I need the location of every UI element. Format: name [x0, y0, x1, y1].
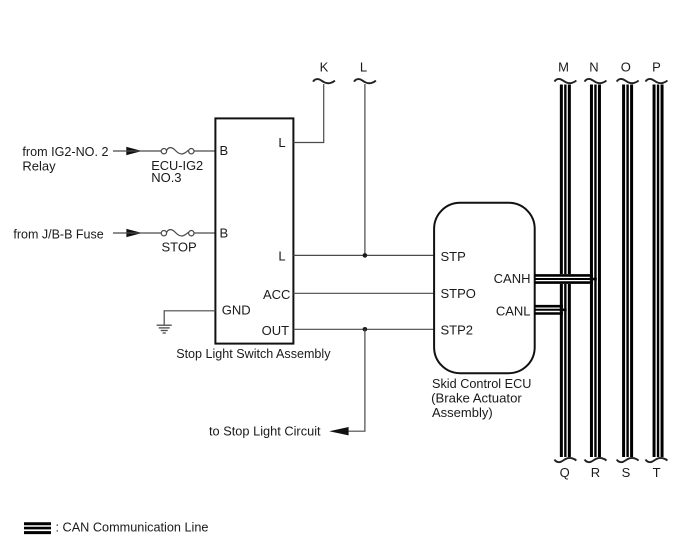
svg-text:M: M: [558, 60, 569, 75]
connector N: [585, 79, 607, 83]
wire connector L down to STP line: [364, 84, 366, 255]
svg-text:from IG2-NO. 2: from IG2-NO. 2: [22, 144, 108, 159]
arrow into B2 (from J/B-B Fuse): [126, 229, 142, 237]
svg-text:Q: Q: [560, 465, 570, 480]
wire fuse F2 to pin B2: [194, 232, 215, 234]
svg-text:STOP: STOP: [162, 239, 197, 254]
svg-text:STPO: STPO: [441, 286, 476, 301]
svg-text:K: K: [320, 60, 329, 75]
connector K: [313, 79, 335, 83]
svg-text:CANH: CANH: [494, 271, 531, 286]
svg-text:from J/B-B Fuse: from J/B-B Fuse: [13, 227, 103, 242]
CANH line crossing white-out over bus M: [559, 274, 573, 284]
fuse STOP: [161, 230, 194, 236]
svg-text:L: L: [360, 60, 367, 75]
Skid Control ECU box: [434, 203, 535, 373]
svg-text:STP2: STP2: [441, 323, 474, 338]
junction dot on STP line: [363, 253, 368, 258]
legend CAN line symbol: [24, 524, 51, 533]
svg-text:(Brake Actuator: (Brake Actuator: [431, 390, 522, 405]
svg-text:Stop Light Switch Assembly: Stop Light Switch Assembly: [176, 346, 331, 361]
wire from relay arrow to fuse F1: [113, 150, 161, 152]
ground symbol: [157, 325, 172, 333]
svg-text:S: S: [622, 465, 631, 480]
svg-text:L: L: [278, 135, 285, 150]
svg-text:N: N: [589, 60, 598, 75]
svg-text:B: B: [220, 226, 229, 241]
connector P: [646, 79, 668, 83]
svg-text:CANL: CANL: [496, 304, 531, 319]
svg-text:L: L: [278, 248, 285, 263]
svg-text:Relay: Relay: [22, 159, 56, 174]
svg-text:T: T: [653, 465, 661, 480]
label: from IG2-NO. 2 Relay: [22, 144, 108, 174]
svg-text:STP: STP: [441, 249, 466, 264]
fuse ECU-IG2 NO.3: [161, 148, 194, 154]
svg-text:B: B: [220, 143, 229, 158]
svg-text:O: O: [621, 60, 631, 75]
CAN bus P vertical line: [654, 85, 662, 458]
connector Q: [555, 458, 577, 462]
svg-text:R: R: [591, 465, 600, 480]
CAN bus N vertical line: [591, 85, 599, 458]
wire ACC to STPO: [293, 292, 434, 294]
connector M: [555, 79, 577, 83]
svg-text:: CAN Communication Line: : CAN Communication Line: [56, 520, 209, 535]
CAN bus M vertical line: [561, 85, 569, 458]
connector S: [617, 458, 639, 462]
wire to stop light circuit: [346, 329, 365, 431]
junction dot on OUT line: [363, 327, 368, 332]
svg-text:NO.3: NO.3: [151, 170, 181, 185]
svg-text:OUT: OUT: [262, 323, 290, 338]
wire GND to ground: [164, 311, 215, 325]
wire L2 to STP: [293, 254, 434, 256]
arrow to stop light circuit: [329, 427, 348, 435]
connector L: [354, 79, 376, 83]
arrow into B1 (from IG2-NO.2 Relay): [126, 147, 142, 155]
svg-text:Skid Control ECU: Skid Control ECU: [432, 376, 531, 391]
wire fuse F1 to pin B1: [194, 150, 215, 152]
svg-text:Assembly): Assembly): [432, 405, 493, 420]
CANL triple line: [535, 306, 567, 313]
connector T: [646, 458, 668, 462]
wire from fuse arrow to fuse F2: [113, 232, 161, 234]
wire L1 to connector K: [293, 84, 323, 143]
wire OUT to STP2: [293, 328, 434, 330]
Stop Light Switch Assembly box: [215, 118, 293, 343]
CAN bus O vertical line: [624, 85, 632, 458]
svg-text:to Stop Light Circuit: to Stop Light Circuit: [209, 423, 321, 438]
connector O: [617, 79, 639, 83]
CANH triple line: [535, 275, 597, 282]
svg-text:GND: GND: [222, 302, 251, 317]
svg-text:ACC: ACC: [263, 287, 290, 302]
connector R: [585, 458, 607, 462]
svg-text:P: P: [652, 60, 661, 75]
